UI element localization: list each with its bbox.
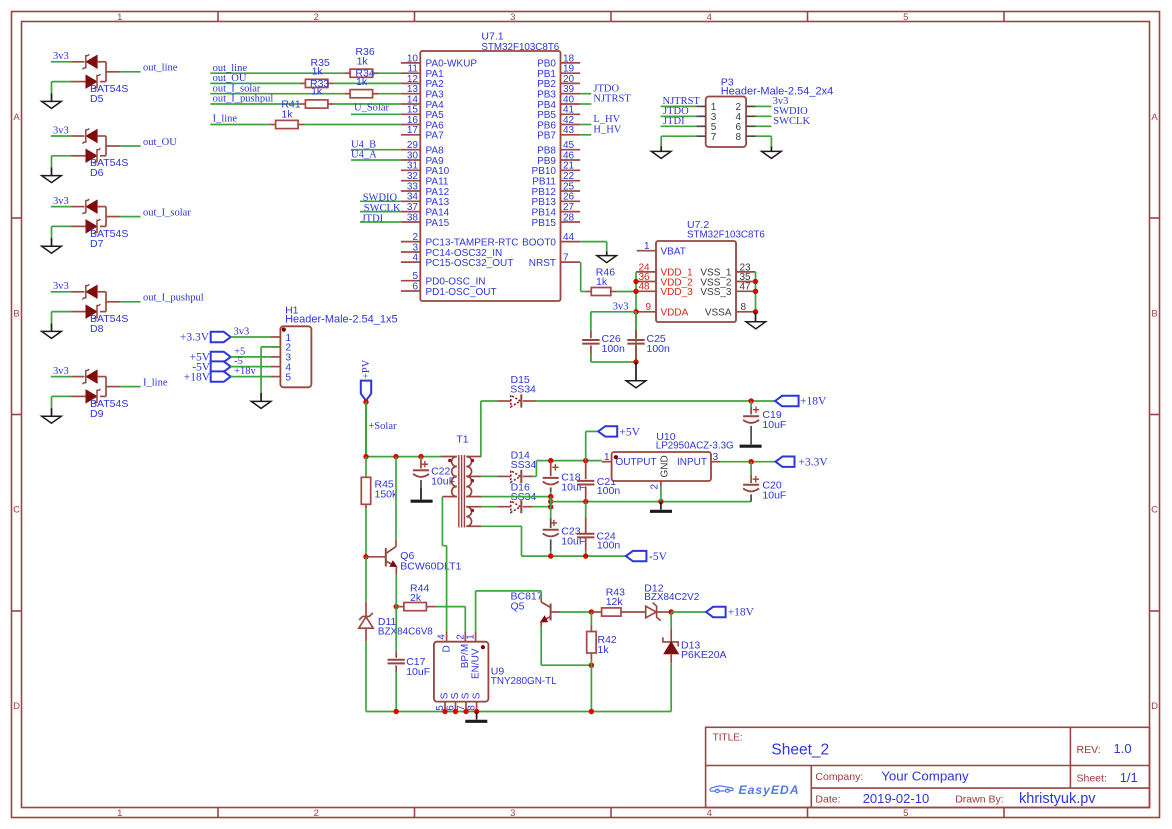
U7.1 pin 44 BOOT0 (561, 241, 581, 243)
U7.1 pin 25 PB12 (561, 190, 581, 192)
svg-text:EasyEDA: EasyEDA (739, 783, 800, 797)
ground (BOOT0) (606, 252, 608, 256)
U7.1 pin 17 PA7 (401, 134, 420, 136)
node C25/C26 ground junction (633, 359, 638, 364)
svg-text:2019-02-10: 2019-02-10 (863, 791, 930, 806)
svg-text:3v3: 3v3 (53, 366, 69, 377)
capacitor C17 10uF (395, 652, 397, 658)
svg-text:2: 2 (314, 808, 319, 819)
wire sec mid-bottom to C18 line (481, 496, 550, 498)
svg-text:H_HV: H_HV (593, 124, 621, 135)
resistor R43 12k (591, 611, 601, 613)
wire sec1 to D15 (480, 401, 482, 457)
svg-text:2: 2 (650, 484, 661, 490)
wire out_I_solar to resistor (210, 93, 344, 95)
svg-text:+5V: +5V (619, 426, 640, 438)
wire 3v3 to D6 (51, 135, 72, 137)
svg-text:1k: 1k (312, 66, 324, 78)
svg-text:Sheet_2: Sheet_2 (771, 742, 829, 759)
U7.2 pin 8 VSSA (736, 311, 756, 313)
U9 pin 6 S (455, 702, 457, 712)
wire to PA4 (334, 103, 401, 105)
svg-text:NRST: NRST (529, 258, 556, 269)
svg-text:21: 21 (563, 161, 575, 172)
svg-text:PC15-OSC32_OUT: PC15-OSC32_OUT (426, 258, 514, 269)
U7.1 pin 4 PC15-OSC32_OUT (401, 261, 420, 263)
svg-text:100n: 100n (597, 485, 621, 497)
svg-text:S: S (450, 692, 461, 699)
svg-text:17: 17 (407, 125, 419, 136)
svg-text:PB10: PB10 (532, 166, 557, 177)
svg-text:Drawn By:: Drawn By: (955, 793, 1003, 805)
svg-text:PB14: PB14 (532, 207, 557, 218)
svg-text:PB15: PB15 (532, 218, 557, 229)
resistor R34 1k (344, 72, 350, 74)
node U9 S pins on rail (442, 709, 447, 714)
U7.1 pin 19 PB1 (561, 72, 581, 74)
wire +5V flag to H1.3 (231, 356, 271, 358)
title block (706, 727, 1150, 807)
svg-text:3: 3 (510, 808, 515, 819)
wire JTDO to P3.3 (661, 115, 697, 117)
svg-text:2: 2 (314, 12, 319, 23)
svg-text:1k: 1k (357, 56, 369, 68)
capacitor C25 100n (635, 312, 637, 330)
wire +18V rail (top) (536, 400, 776, 402)
U7.1 pin 45 PB8 (561, 149, 581, 151)
svg-text:Your Company: Your Company (881, 769, 969, 784)
U7.2 pin 23 VSS_1 (736, 271, 756, 273)
P3 pin 4 (746, 115, 755, 117)
ground (D7) (51, 238, 53, 246)
node R42 bottom (589, 663, 594, 668)
svg-text:150k: 150k (375, 488, 399, 500)
svg-text:1/1: 1/1 (1120, 770, 1138, 785)
svg-text:OUTPUT: OUTPUT (616, 457, 657, 468)
U7.2 pin 47 VSS_3 (736, 290, 756, 292)
capacitor C26 100n (590, 331, 592, 338)
svg-text:Q5: Q5 (511, 601, 525, 613)
U7.1 pin 46 PB9 (561, 159, 581, 161)
H1 pin 1 (271, 336, 280, 338)
svg-text:10uF: 10uF (406, 666, 430, 678)
ground (D9) (51, 408, 53, 416)
wire sec mid to D14 (481, 475, 497, 477)
wire L_HV (PB6) (580, 124, 591, 126)
wire U_Solar to PA5 (351, 113, 401, 115)
wire emitter node to C17 (395, 601, 397, 607)
wire D8 to ground (52, 311, 72, 313)
H1 pin 2 (271, 346, 280, 348)
IC U7.2 STM32F103C8T6 (power pins) body (656, 241, 736, 322)
wire D11 to ground rail (365, 641, 367, 711)
svg-text:D: D (13, 701, 20, 712)
svg-text:A: A (13, 112, 20, 123)
wire R44 to U9 BP/M (436, 606, 466, 608)
svg-text:TNY280GN-TL: TNY280GN-TL (491, 676, 557, 687)
wire sec3 top to D16 (481, 506, 497, 508)
U10 pin 2 GND (660, 481, 662, 487)
wire U4_B to PA8 (351, 149, 401, 151)
diode D16 SS34 (497, 506, 510, 508)
svg-text:Header-Male-2.54_1x5: Header-Male-2.54_1x5 (285, 314, 398, 326)
svg-text:5: 5 (903, 808, 908, 819)
U7.1 pin 28 PB15 (561, 221, 581, 223)
U7.1 pin 20 PB2 (561, 82, 581, 84)
svg-text:Date:: Date: (815, 793, 840, 805)
wire ground rail (bottom) (366, 711, 671, 713)
svg-text:10uF: 10uF (561, 482, 585, 494)
svg-text:8: 8 (741, 302, 747, 313)
node C22 tap (418, 454, 423, 459)
wire NJTRST (PB4) (580, 103, 591, 105)
svg-text:48: 48 (639, 282, 651, 293)
wire JTDO (PB3) (580, 93, 591, 95)
svg-text:out_I_solar: out_I_solar (143, 207, 191, 218)
svg-text:1: 1 (117, 808, 122, 819)
wire R46 to VDD rail (617, 291, 636, 293)
svg-text:3v3: 3v3 (53, 281, 69, 292)
power flag +3.3V (211, 332, 231, 342)
U7.1 pin 38 PA15 (401, 221, 420, 223)
wire BOOT0 to ground (580, 241, 607, 243)
wire -5V flag to H1.4 (231, 366, 271, 368)
wire to +18V flag (bottom) (671, 611, 706, 613)
svg-text:+18v: +18v (234, 366, 256, 377)
wire 3v3 to D9 (51, 376, 72, 378)
wire +5V riser (585, 431, 587, 460)
node Q6 base (363, 554, 368, 559)
svg-text:B: B (13, 308, 19, 319)
wire C18 line vertical (496-516) (550, 497, 552, 518)
svg-text:-5V: -5V (649, 551, 668, 563)
svg-text:VSSA: VSSA (705, 308, 732, 319)
svg-text:D7: D7 (90, 238, 104, 250)
EasyEDA logo (710, 783, 799, 797)
ground (C25/C26) (635, 362, 637, 381)
U9 pin 1 EN/UV (475, 632, 477, 642)
resistor R33 1k (299, 82, 305, 84)
U7.1 pin 5 PD0-OSC_IN (401, 280, 420, 282)
svg-text:PA10: PA10 (426, 166, 450, 177)
node +PV (363, 399, 368, 404)
resistor 1k (row PA3) (344, 93, 350, 95)
svg-text:D5: D5 (90, 93, 104, 105)
node VSS_3 (753, 289, 758, 294)
wire Q5 collector (540, 591, 542, 598)
svg-text:STM32F103C8T6: STM32F103C8T6 (687, 230, 765, 241)
svg-text:I_line: I_line (213, 113, 238, 124)
svg-text:PA14: PA14 (426, 207, 450, 218)
connector H1 Header-Male-2.54_1x5 body (280, 326, 311, 387)
U7.1 pin 18 PB0 (561, 62, 581, 64)
node C23 bottom (548, 553, 553, 558)
wire R34 to PA1 (379, 72, 401, 74)
capacitor C24 100n (585, 502, 587, 517)
node C18 top (548, 458, 553, 463)
wire 3v3 to D8 (51, 291, 72, 293)
U7.1 pin 30 PA9 (401, 159, 420, 161)
U10 pin 3 INPUT (711, 461, 721, 463)
wire D5 to ground (52, 81, 72, 83)
svg-text:BOOT0: BOOT0 (522, 237, 556, 248)
svg-text:28: 28 (563, 212, 575, 223)
U7.1 pin 31 PA10 (401, 169, 420, 171)
svg-text:U4_A: U4_A (351, 150, 377, 161)
diode D14 SS34 (497, 475, 510, 477)
node C21/+5V riser (583, 458, 588, 463)
svg-text:100n: 100n (647, 343, 671, 355)
resistor R41 1k (270, 124, 276, 126)
svg-text:4: 4 (437, 634, 448, 640)
svg-text:27: 27 (563, 202, 575, 213)
svg-text:2: 2 (412, 232, 418, 243)
wire solar node row (366, 456, 441, 458)
svg-text:D9: D9 (90, 408, 104, 420)
mid rail wire (551, 501, 751, 503)
svg-text:Company:: Company: (815, 771, 863, 783)
U7.2 pin 24 VDD_1 (636, 271, 656, 273)
wire SWDIO to PA13 (360, 200, 401, 202)
svg-text:out_line: out_line (143, 63, 178, 74)
U7.1 pin 22 PB11 (561, 180, 581, 182)
power flag +5V (598, 426, 617, 436)
svg-text:+Solar: +Solar (368, 421, 397, 432)
svg-text:1: 1 (644, 241, 650, 252)
svg-text:1: 1 (604, 452, 610, 463)
svg-text:VDD_3: VDD_3 (661, 287, 694, 298)
wire output of D6 (121, 145, 141, 147)
node C17/rail (394, 709, 399, 714)
capacitor C19 10uF (750, 401, 752, 407)
power flag +18V (top) (775, 396, 799, 406)
ground bar (C19) (740, 445, 762, 448)
U9 pin 2 BP/M (464, 632, 466, 642)
node D12/D13/+18V (669, 609, 674, 614)
U7.2 pin 48 VDD_3 (636, 290, 656, 292)
wire INPUT to +3.3V (721, 461, 776, 463)
ground (VSS) (755, 312, 757, 322)
wire output of D5 (121, 71, 141, 73)
svg-text:U_Solar: U_Solar (354, 103, 390, 114)
wire P3.7 to ground (661, 135, 696, 137)
U7.2 pin 9 VDDA (636, 311, 656, 313)
H1 pin 3 (271, 356, 280, 358)
wire out_line to R34 (210, 72, 344, 74)
wire R33 to PA2 (334, 82, 401, 84)
wire R42 bottom to ground rail (590, 665, 592, 711)
svg-text:43: 43 (563, 125, 575, 136)
zener diode D12 BZX84C2V2 (646, 606, 657, 618)
power flag +5V (211, 352, 231, 362)
svg-text:5: 5 (286, 372, 292, 383)
U7.2 pin 36 VDD_2 (636, 281, 656, 283)
node VSSA (753, 309, 758, 314)
svg-text:1k: 1k (356, 76, 368, 88)
svg-text:4: 4 (707, 808, 712, 819)
U7.1 pin 34 PA13 (401, 200, 420, 202)
node C21 bottom (583, 499, 588, 504)
svg-text:VSS_3: VSS_3 (700, 287, 732, 298)
transistor Q5 BC817 (541, 598, 560, 626)
svg-text:4: 4 (707, 12, 712, 23)
wire output of D8 (121, 301, 141, 303)
U7.1 pin 14 PA4 (401, 103, 420, 105)
wire Q5 emitter down (540, 626, 542, 665)
svg-text:6: 6 (412, 281, 418, 292)
svg-text:9: 9 (646, 302, 652, 313)
U7.1 pin 16 PA6 (401, 124, 420, 126)
wire primary bottom to U9 drain (441, 497, 443, 546)
node VSS_2 (753, 279, 758, 284)
svg-text:SS34: SS34 (511, 459, 537, 471)
svg-text:3: 3 (713, 452, 719, 463)
U7.1 pin 15 PA5 (401, 113, 420, 115)
svg-text:8: 8 (735, 132, 741, 143)
svg-text:INPUT: INPUT (677, 457, 707, 468)
U7.1 pin 11 PA1 (401, 72, 420, 74)
svg-text:3v3: 3v3 (53, 196, 69, 207)
U7.2 pin 35 VSS_2 (736, 281, 756, 283)
node VDDA / 3v3 (633, 309, 638, 314)
svg-text:5: 5 (903, 12, 908, 23)
diode D7 (BAT54S dual) (72, 199, 121, 234)
svg-text:1k: 1k (596, 276, 608, 288)
U7.1 pin 33 PA12 (401, 190, 420, 192)
connector P3 Header-Male-2.54_2x4 body (706, 97, 746, 148)
power flag +18V (H1) (211, 371, 231, 381)
capacitor C20 10uF (750, 462, 752, 475)
power flag +3.3V (right) (776, 457, 795, 467)
U7.1 pin 42 PB6 (561, 124, 581, 126)
U7.1 pin 10 PA0-WKUP (401, 62, 420, 64)
ground bar (U9 source) (476, 712, 478, 720)
svg-text:D8: D8 (90, 323, 104, 335)
wire C17 to ground rail (395, 672, 397, 712)
capacitor C23 10uF (551, 522, 557, 524)
svg-text:S: S (461, 692, 472, 699)
P3 pin 1 (696, 105, 705, 107)
U9 pin 5 S (444, 702, 446, 712)
capacitor C18 10uF (550, 461, 552, 466)
svg-text:BZX84C6V8: BZX84C6V8 (378, 627, 433, 638)
svg-text:BCW60DLT1: BCW60DLT1 (400, 560, 461, 572)
wire 3v3 (P3.2) (756, 105, 772, 107)
P3 pin 8 (746, 135, 755, 137)
diode D13 P6KE20A (TVS) (670, 612, 672, 628)
wire JTDI to PA15 (360, 221, 401, 223)
svg-text:PA7: PA7 (426, 131, 445, 142)
node D16 output (548, 504, 553, 509)
U7.1 pin 41 PB5 (561, 113, 581, 115)
wire D13 to ground rail (670, 663, 672, 711)
wire output of D9 (121, 386, 141, 388)
diode D9 (BAT54S dual) (72, 369, 121, 404)
diode D15 SS34 (497, 400, 510, 402)
svg-text:100n: 100n (602, 343, 626, 355)
wire sec3 bottom to -5V rail (481, 525, 521, 527)
wire Q6 emitter down (395, 574, 397, 601)
ground (D5) (51, 93, 53, 101)
svg-text:PD1-OSC_OUT: PD1-OSC_OUT (426, 287, 497, 298)
U7.1 pin 21 PB10 (561, 169, 581, 171)
wire output of D7 (121, 216, 141, 218)
svg-text:T1: T1 (456, 433, 468, 445)
node R43/R42/Q5 base (589, 609, 594, 614)
P3 pin 7 (696, 135, 705, 137)
zener diode D11 BZX84C6V8 (365, 602, 367, 617)
U7.1 pin 43 PB7 (561, 134, 581, 136)
U9 pin 4 D (446, 632, 448, 642)
wire Q6 collector riser (395, 457, 397, 540)
ground (P3.8) (770, 147, 772, 152)
wire NJTRST to P3.1 (661, 105, 697, 107)
svg-text:3v3: 3v3 (234, 326, 250, 337)
P3 pin 3 (696, 115, 705, 117)
svg-text:out_I_pushpul: out_I_pushpul (143, 293, 204, 304)
U7.1 pin 13 PA3 (401, 93, 420, 95)
wire R41 to PA6 (304, 124, 401, 126)
wire U9 EN/UV riser to Q5 (475, 591, 477, 632)
svg-text:VBAT: VBAT (661, 247, 686, 258)
svg-text:D: D (441, 645, 452, 652)
svg-text:1: 1 (466, 634, 477, 640)
diode D5 (BAT54S dual) (72, 54, 121, 89)
capacitor C21 100n (585, 461, 587, 480)
wire SWCLK (P3.6) (756, 125, 772, 127)
node VDD_3 (633, 289, 638, 294)
svg-text:+18V: +18V (800, 396, 827, 408)
svg-text:2k: 2k (410, 592, 422, 604)
IC U7.1 STM32F103C8T6 body (420, 51, 560, 301)
U7.1 pin 29 PA8 (401, 149, 420, 151)
node VDD_2 (633, 279, 638, 284)
svg-text:+3.3V: +3.3V (799, 456, 829, 468)
svg-text:+18V: +18V (184, 371, 211, 383)
svg-text:D: D (1151, 701, 1158, 712)
svg-text:47: 47 (740, 282, 752, 293)
svg-text:VDDA: VDDA (661, 308, 689, 319)
U7.1 pin 7 NRST (561, 261, 581, 263)
U7.1 pin 27 PB14 (561, 211, 581, 213)
capacitor C22 10uF (420, 457, 422, 460)
ground (D8) (51, 323, 53, 331)
svg-text:1k: 1k (598, 644, 610, 656)
P3 pin 2 (746, 105, 755, 107)
wire Q6 base node to D11 (365, 557, 367, 602)
U7.1 pin 32 PA11 (401, 180, 420, 182)
svg-text:I_line: I_line (143, 377, 168, 388)
node C20 top (748, 459, 753, 464)
node C19 tap (748, 398, 753, 403)
wire VDD rail (left of U7.2) (635, 272, 637, 362)
svg-text:100n: 100n (597, 540, 621, 552)
svg-text:7: 7 (563, 253, 569, 264)
wire H_HV (PB7) (580, 134, 591, 136)
resistor R44 2k (396, 606, 404, 608)
svg-text:44: 44 (563, 232, 575, 243)
transformer T1 (441, 455, 481, 528)
wire U10 GND to mid rail (660, 487, 662, 502)
wire +PV down (Solar rail) (365, 402, 367, 457)
U7.1 pin 37 PA14 (401, 211, 420, 213)
U7.1 pin 26 PB13 (561, 200, 581, 202)
wire U4_A to PA9 (351, 159, 401, 161)
node C24 bottom (583, 553, 588, 558)
wire out_OU to R33 (210, 82, 299, 84)
svg-text:S: S (471, 692, 482, 699)
wire D9 to ground (52, 395, 72, 397)
